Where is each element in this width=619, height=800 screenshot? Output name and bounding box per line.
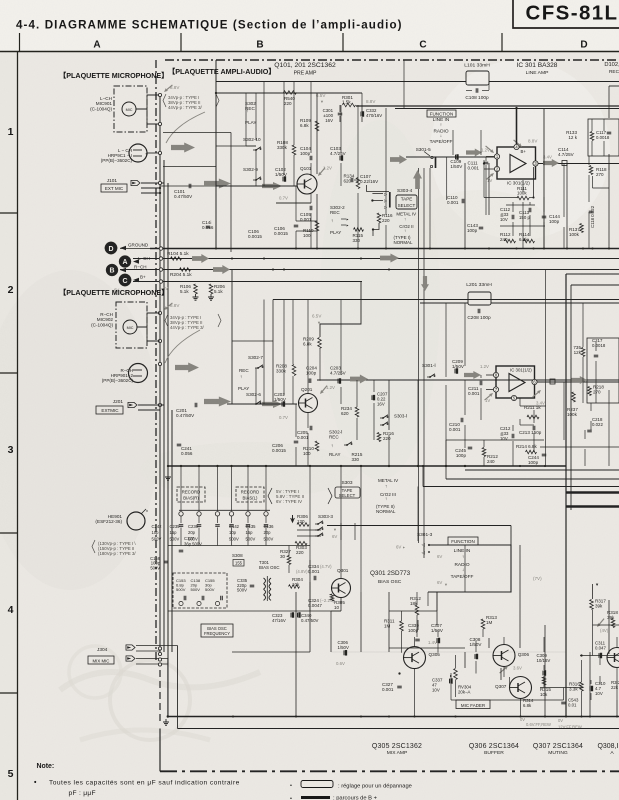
signal arrow row2 out (571, 376, 587, 384)
connector J101 (131, 180, 140, 185)
function switch labels row1 (427, 110, 456, 117)
signal arrow bus rail right (380, 254, 399, 263)
junction dots bias rail (422, 465, 424, 467)
wire bias mid rails (168, 545, 310, 547)
wire row4 horizontals (331, 651, 566, 653)
wire row2 L201 rail (420, 302, 468, 304)
curved pointer row1 (166, 112, 205, 143)
opamp IC301 1/2 row1 (497, 147, 536, 179)
capacitor C301 (339, 105, 341, 112)
signal arrow row2 preamp (204, 397, 231, 407)
wire row4 extra (401, 611, 403, 621)
wire J201 to bus (138, 404, 164, 406)
ground bias rail (167, 474, 169, 477)
resistor R235 (581, 348, 585, 357)
wire B+ rail (133, 281, 362, 283)
opamp IC301 2/2 (496, 366, 535, 398)
wire IC301b out (537, 381, 619, 383)
signal arrow C111 (466, 149, 482, 157)
wire right frame row2 (565, 274, 567, 717)
function switch labels row3 (448, 537, 478, 545)
capacitor C135 (247, 466, 249, 511)
microphone MIC902 (123, 320, 137, 334)
capacitor C108 (475, 88, 477, 93)
wire mix bus connectors (158, 647, 161, 650)
wire L-CH rail (133, 258, 619, 260)
signal arrow row2 top down (421, 276, 429, 291)
wire mix bus drops (167, 659, 169, 717)
wire bias top rail (168, 465, 566, 467)
wire function frame (465, 469, 619, 471)
wire row4 verticals (295, 592, 297, 717)
signal arrow up S301-5 (413, 170, 422, 189)
wire q308 base (580, 655, 619, 657)
signal arrow bus L (192, 254, 209, 263)
junction dots rch rail (272, 269, 274, 271)
switch cluster row2 (382, 417, 384, 419)
wire row1 component verticals (245, 93, 247, 146)
wire mic to bus (136, 95, 160, 109)
wire R318 joins (592, 584, 594, 599)
transistor Q305 (404, 647, 426, 669)
signal arrow bus R (213, 265, 230, 274)
switch S303-4 contacts (389, 192, 391, 208)
bus edge connectors (159, 247, 162, 250)
wire row1 line-in (406, 156, 495, 158)
terminal D ground (105, 242, 117, 254)
terminal B R-CH (106, 264, 118, 276)
wire row1 mid rail (395, 108, 619, 110)
signal arrow row2 mic (175, 363, 199, 373)
signal arrow C114 (543, 159, 559, 167)
capacitor C214 (550, 379, 555, 384)
capacitor C235 (198, 466, 200, 511)
wire row1 b rail (216, 92, 362, 94)
record bias L box (236, 487, 264, 502)
wire row1 signal (216, 185, 297, 187)
ground plaquette (165, 719, 167, 722)
mic bus connectors row2 (158, 311, 161, 314)
signal arrow row1 mic (171, 143, 195, 153)
wire row1 8.8V rail (356, 105, 619, 107)
signal arrow row2 mid (350, 375, 368, 384)
wire J304 to bus (136, 645, 178, 647)
wire row4 long rails (168, 716, 619, 718)
wire S301 bus verticals (418, 168, 420, 543)
signal arrow C209 (464, 371, 481, 379)
wire row2 signal (227, 403, 297, 405)
wire IC301 inputs (486, 156, 495, 158)
wire mic902 to bus (137, 313, 160, 327)
wire row1 left vertical (215, 60, 217, 248)
left row ticks (0, 212, 18, 214)
transistor Q306 (493, 645, 515, 667)
junction dots lch rail (231, 258, 233, 260)
mic board bus wires (159, 95, 161, 652)
box right row2 (587, 338, 619, 403)
wire row2 frame (231, 270, 233, 405)
paper ghosting (60, 672, 260, 690)
capacitor C208 (477, 309, 479, 314)
plaquette mic bottom dashes (159, 670, 161, 722)
left border (17, 52, 19, 800)
ground R206 (210, 294, 212, 297)
capacitor C332 (361, 105, 363, 112)
connector J201 (128, 402, 137, 407)
connector J304b (126, 656, 135, 661)
wire IC301 feedback (533, 167, 535, 198)
wire Q101 collector (316, 93, 318, 174)
signal arrow S301-5 in (390, 155, 407, 164)
terminal A L-CH (119, 256, 131, 268)
plaquette ampli-audio top border (165, 59, 619, 61)
signal arrow C102 out (262, 182, 282, 190)
terminal C B+ (119, 274, 131, 286)
transistor Q307 (510, 677, 532, 699)
wire IC301 out (538, 163, 619, 165)
wire q301 down (340, 597, 342, 611)
resistor R540 (284, 91, 297, 95)
wire R-CH rail (120, 269, 619, 271)
capacitor C101 (160, 185, 216, 187)
trimmer box row3 (173, 573, 227, 608)
mic bus connectors row1 (158, 93, 161, 96)
wire row4 horizontal extra (331, 610, 341, 612)
resistor R115 (354, 228, 364, 232)
record bias R box (177, 487, 205, 502)
head erase HE901 (127, 512, 145, 530)
connector J304a (126, 645, 135, 650)
bias osc frequency box (201, 624, 233, 637)
junction dots bottom rail (232, 716, 234, 718)
wire row1 horizontal joins (216, 145, 256, 147)
wire S302 row1 (163, 132, 231, 134)
plaquette border bottom-left corner (159, 729, 161, 772)
junction dots ground rail (215, 248, 217, 250)
resistor R301 (343, 103, 356, 107)
resistor R210b wire (388, 380, 390, 430)
plaquette ampli-audio bottom border (160, 770, 619, 772)
grid column ticks (19, 33, 21, 52)
microphone MIC901 dashed box (114, 86, 147, 132)
wire row2 b+ down (320, 282, 361, 338)
wire J101 to bus (141, 182, 164, 184)
signal arrow row1 preamp (204, 179, 231, 189)
wire bias frame left (167, 466, 169, 717)
wire row3 verticals extra (288, 546, 290, 557)
model number box CFS-81L (513, 0, 619, 28)
wire row2 horizontal joins (232, 340, 273, 342)
wire bias verticals (309, 466, 311, 560)
wire head to bus (147, 152, 160, 154)
wire row2 out (317, 379, 619, 381)
wire IC301b inputs (486, 374, 494, 376)
capacitor C242 (180, 466, 182, 511)
B+ thick bar 1 (566, 491, 619, 493)
wire function out (428, 545, 511, 592)
grid header rule (0, 51, 619, 53)
wire row2 component verticals (255, 368, 257, 404)
capacitor C142 (231, 466, 233, 511)
wire C112 joins row1 (506, 204, 535, 206)
wire ground rail (150, 248, 619, 250)
curved pointer row2 (165, 330, 200, 363)
microphone MIC901 (122, 102, 136, 116)
B+ thick bar 2 (566, 505, 619, 507)
transistor Q308 (607, 648, 619, 668)
capacitor C136 (265, 466, 267, 511)
ground R106 (195, 294, 197, 297)
wire row1 right verticals (543, 108, 545, 248)
plaquette ampli-audio left border (155, 60, 157, 660)
wire row1 top rail (216, 81, 466, 83)
resistor R133 C117 box (588, 119, 619, 156)
capacitor C236 (217, 466, 219, 511)
wire IC301 B+ feed (516, 108, 518, 144)
microphone MIC902 dashed box (116, 302, 147, 348)
wire trimmer rail (179, 509, 270, 511)
head HRP901-2 (129, 364, 148, 383)
signal arrow C202 out (262, 400, 282, 408)
wire S303-3 out (327, 525, 511, 527)
head HRP901-1 (129, 144, 147, 162)
